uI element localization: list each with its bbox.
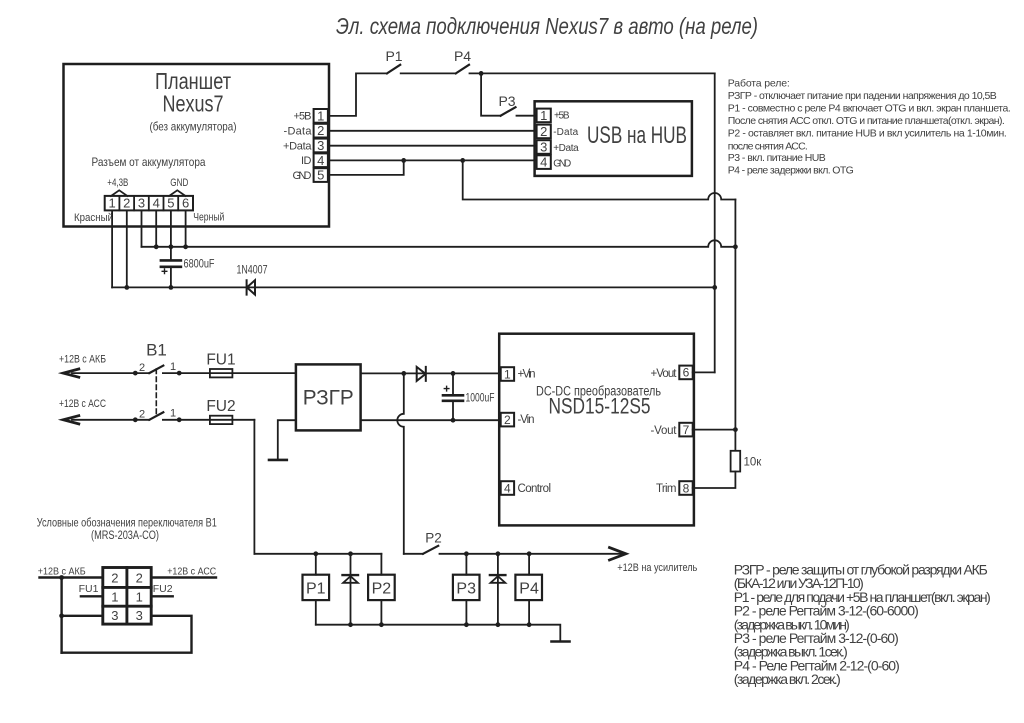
diode D1 1N4007 <box>247 280 255 294</box>
svg-text:3: 3 <box>136 608 143 623</box>
svg-text:2: 2 <box>139 409 145 421</box>
svg-text:2: 2 <box>540 124 547 139</box>
connector wire pin3 down <box>141 210 143 246</box>
svg-text:FU2: FU2 <box>153 583 173 595</box>
capacitor C1 branch upper <box>170 247 172 260</box>
node P2 bottom <box>379 622 384 627</box>
node pin5/gnd-line <box>169 244 174 249</box>
node ID/GND junction <box>401 158 406 163</box>
node D4 tap <box>496 551 501 556</box>
wire +5V rail <box>112 286 715 288</box>
svg-text:P3: P3 <box>498 93 515 109</box>
capacitor C1 polarity plus <box>162 269 167 274</box>
wire relay bottom rail <box>316 625 561 642</box>
svg-text:1: 1 <box>317 108 324 123</box>
diode D3 lead <box>350 554 352 625</box>
svg-text:4: 4 <box>540 155 547 170</box>
node P3 bottom <box>464 622 469 627</box>
svg-text:Работа реле:: Работа реле: <box>728 78 790 90</box>
svg-text:-Data: -Data <box>553 127 578 138</box>
wire RZGR minus to ground <box>278 420 296 460</box>
node P4 bottom <box>527 622 532 627</box>
arrow to AKB <box>63 369 79 377</box>
svg-text:2: 2 <box>504 413 511 427</box>
legend wire row3 right and loop <box>62 616 192 653</box>
USB HUB box <box>535 101 692 176</box>
caret marker over pins 5-6 <box>169 190 185 196</box>
capacitor C2 1000uF plates <box>443 395 463 401</box>
svg-text:GND: GND <box>293 170 312 182</box>
wire ID tablet to HUB GND <box>328 159 537 161</box>
arrow to ACC <box>63 416 79 424</box>
relay P2 coil box <box>368 575 395 600</box>
switch P3 blade <box>501 107 516 116</box>
relay P4 coil leads <box>528 554 530 625</box>
DC-DC pin squares <box>501 367 514 381</box>
svg-text:FU1: FU1 <box>79 583 99 595</box>
wire GND down and right to -Vout vertical <box>463 160 736 199</box>
svg-text:2: 2 <box>139 362 145 374</box>
svg-text:+12В на усилитель: +12В на усилитель <box>617 562 697 574</box>
node pin4/gnd-line <box>154 244 159 249</box>
svg-text:3: 3 <box>317 138 324 153</box>
svg-text:РЗГР: РЗГР <box>303 387 354 410</box>
svg-text:6800uF: 6800uF <box>184 259 215 271</box>
relay P1 coil box <box>303 575 330 600</box>
connector wire pin5 down <box>170 210 172 246</box>
svg-text:+4,3В: +4,3В <box>107 177 128 189</box>
switch B1 pole2 out node <box>177 417 182 422</box>
tablet pin labels <box>283 111 312 183</box>
node pin2/rail <box>124 285 129 290</box>
capacitor C2 polarity plus <box>444 386 449 391</box>
svg-text:Р1 - совместно с реле Р4 вкгюч: Р1 - совместно с реле Р4 вкгючает OTG и … <box>728 103 1011 115</box>
capacitor C2 branch lower <box>452 401 454 420</box>
svg-text:Р3 - вкл. питание HUB: Р3 - вкл. питание HUB <box>728 152 826 164</box>
wire P1 to P4 <box>401 72 456 74</box>
legend wire AKB <box>40 576 103 578</box>
legend wire FU1 <box>81 595 103 597</box>
svg-text:-Vout: -Vout <box>651 425 678 437</box>
svg-text:+12В с АСС: +12В с АСС <box>59 398 106 410</box>
svg-text:5: 5 <box>317 168 324 183</box>
legend wire ACC <box>151 576 216 578</box>
svg-text:Разъем от аккумулятора: Разъем от аккумулятора <box>92 155 206 169</box>
svg-text:P1: P1 <box>385 48 402 64</box>
connector wire pin2 down <box>126 210 128 287</box>
svg-text:1000uF: 1000uF <box>466 393 495 405</box>
svg-text:РЗГР - отключает питание при п: РЗГР - отключает питание при падении нап… <box>728 90 997 102</box>
svg-text:USB на HUB: USB на HUB <box>587 122 687 149</box>
node C1/rail <box>169 285 174 290</box>
relay P2 coil leads <box>380 554 382 625</box>
svg-text:1: 1 <box>111 589 118 604</box>
node D3 tap <box>348 551 353 556</box>
svg-text:Р4 - реле задержки вкл. OTG: Р4 - реле задержки вкл. OTG <box>728 165 854 177</box>
node junction P4/P3 <box>479 71 484 76</box>
battery connector X1 <box>105 196 193 211</box>
switch P1 blade <box>387 65 400 74</box>
wire FU2 down to bottom rail <box>253 420 255 554</box>
arrow to amplifier <box>610 548 626 560</box>
svg-text:Р2 - оставляет вкл. питание HU: Р2 - оставляет вкл. питание HUB и вкл ус… <box>728 128 1007 140</box>
ground G2 <box>552 640 570 643</box>
svg-text:B1: B1 <box>146 341 167 360</box>
switch P4 blade <box>456 65 469 74</box>
svg-text:(без аккумулятора): (без аккумулятора) <box>150 120 237 134</box>
node pin6/gnd-line <box>183 244 188 249</box>
svg-text:1: 1 <box>504 367 511 381</box>
wire resistor to Trim pin8 <box>693 472 736 489</box>
svg-text:2: 2 <box>317 123 324 138</box>
svg-text:-Vin: -Vin <box>518 414 535 426</box>
HUB pin numbers <box>540 108 547 170</box>
legend wire loop left vertical <box>60 578 62 653</box>
B1 mechanical link dashed <box>155 369 157 417</box>
relay P3 coil box <box>453 575 480 600</box>
relay P3 coil leads <box>465 554 467 625</box>
wire P4 to right vertical <box>470 72 715 74</box>
svg-text:6: 6 <box>182 196 189 211</box>
svg-text:После снятия АСС откл. OTG и п: После снятия АСС откл. OTG и питание пла… <box>728 115 1005 127</box>
svg-text:-Data: -Data <box>284 126 313 138</box>
DC-DC pin labels <box>518 368 678 495</box>
tablet pin squares 1-5 <box>314 109 328 123</box>
svg-text:(задержка вкл. 2сек.): (задержка вкл. 2сек.) <box>734 671 841 687</box>
capacitor C1 6800uF plates <box>161 260 181 266</box>
wire +5B from tablet pin1 <box>328 73 387 116</box>
svg-text:4: 4 <box>317 153 324 168</box>
legend node AKB tap <box>59 575 64 580</box>
svg-text:1: 1 <box>108 196 115 211</box>
resistor R1 10k <box>731 451 741 472</box>
svg-text:2: 2 <box>111 571 118 586</box>
switch B1 pole1 blade <box>149 366 163 374</box>
relay work notes text block <box>728 78 1011 177</box>
legend wire row3 left <box>62 615 103 617</box>
svg-text:5: 5 <box>167 196 174 211</box>
tablet pin numbers <box>317 108 324 182</box>
switch P2 blade <box>423 546 438 554</box>
node GND branch junction <box>460 158 465 163</box>
DC-DC pin numbers <box>504 366 690 496</box>
wire ACC to B1 <box>72 419 254 421</box>
svg-text:FU2: FU2 <box>206 398 235 415</box>
switch B1 pole2 pivot <box>133 417 138 422</box>
svg-text:1: 1 <box>170 361 176 373</box>
svg-text:P3: P3 <box>456 581 476 598</box>
svg-text:P1: P1 <box>306 581 326 598</box>
wire relay top rail left <box>254 553 423 555</box>
svg-text:+5В: +5В <box>294 111 312 123</box>
svg-text:Красный: Красный <box>74 212 113 224</box>
svg-text:NSD15-12S5: NSD15-12S5 <box>549 394 651 419</box>
capacitor C2 branch upper <box>452 373 454 395</box>
svg-text:Черный: Черный <box>193 212 224 224</box>
svg-text:Control: Control <box>518 483 552 495</box>
connector pin numbers 1-6 <box>108 196 189 211</box>
svg-text:1: 1 <box>136 589 143 604</box>
svg-text:+Data: +Data <box>553 143 579 154</box>
node C2 bottom <box>451 418 456 423</box>
svg-text:FU1: FU1 <box>206 352 235 369</box>
svg-text:+Data: +Data <box>283 140 312 152</box>
wire AKB to B1 <box>72 372 296 374</box>
svg-text:P4: P4 <box>519 581 539 598</box>
wire +Vout to vertical <box>693 371 715 373</box>
wire GND tablet pin5 up to ID line <box>328 160 404 175</box>
RZGR box <box>296 364 361 430</box>
switch B1 pole1 out node <box>177 371 182 376</box>
relay list text block <box>734 562 991 688</box>
connector wire pin1 down <box>111 210 113 287</box>
svg-text:Условные обозначения переключа: Условные обозначения переключателя В1 <box>37 518 217 530</box>
wire RZGR out to DC-DC +Vin <box>361 372 501 374</box>
node C2 top <box>451 371 456 376</box>
svg-text:Nexus7: Nexus7 <box>163 91 224 117</box>
svg-text:2: 2 <box>136 571 143 586</box>
legend cell numbers <box>111 571 143 624</box>
ground G1 <box>269 459 287 462</box>
relay P4 coil box <box>515 575 542 600</box>
svg-text:6: 6 <box>683 366 690 380</box>
svg-text:P2: P2 <box>425 531 442 546</box>
wire gnd vertical down to resistor <box>734 200 736 451</box>
diode D3 <box>343 576 358 583</box>
diode D4 lead <box>497 554 499 625</box>
connector wire pin6 down <box>185 210 187 246</box>
svg-text:после снятия АСС.: после снятия АСС. <box>728 140 808 152</box>
node D3 bottom <box>348 622 353 627</box>
node P1 coil tap <box>313 551 318 556</box>
svg-text:1N4007: 1N4007 <box>237 265 268 277</box>
wire gnd horizontal run to right with hop <box>142 240 736 246</box>
wire relay feed vertical with hop <box>397 373 404 553</box>
fuse FU1 <box>210 369 233 377</box>
caret marker over pins 1-2 <box>111 190 127 196</box>
node P3 coil tap <box>464 551 469 556</box>
wire down to P3 <box>481 73 501 115</box>
svg-text:Trim: Trim <box>656 483 677 495</box>
wire RZGR bottom to DC-DC -Vin <box>361 419 501 421</box>
capacitor C1 branch lower <box>170 267 172 287</box>
svg-text:GND: GND <box>170 177 188 189</box>
tablet box U-tablet <box>64 64 330 227</box>
wire -Data tablet to HUB <box>328 130 537 132</box>
fuse FU2 <box>210 416 233 424</box>
node D4 bottom <box>496 622 501 627</box>
svg-text:P2: P2 <box>372 581 392 598</box>
node gnd run joins -Vout vertical <box>733 244 738 249</box>
svg-text:+12В с АСС: +12В с АСС <box>167 566 216 578</box>
relay P1 coil leads <box>315 554 317 625</box>
wire -Vout to vertical <box>693 429 736 431</box>
wire relay top rail right to amplifier <box>440 553 625 555</box>
svg-text:GND: GND <box>553 158 571 169</box>
svg-text:P4: P4 <box>454 48 471 64</box>
wire +Vout vertical up to P4 line <box>714 73 716 372</box>
svg-text:(MRS-203A-CO): (MRS-203A-CO) <box>91 530 159 542</box>
svg-text:3: 3 <box>111 608 118 623</box>
DC-DC converter box <box>499 334 694 526</box>
svg-text:Эл. схема подключения Nexus7 в: Эл. схема подключения Nexus7 в авто (на … <box>336 13 758 39</box>
legend wire FU2 <box>151 595 173 597</box>
svg-text:1: 1 <box>540 108 547 123</box>
node rail joins +Vout vertical <box>712 285 717 290</box>
HUB pin squares 1-4 <box>537 109 551 123</box>
legend switch grid <box>103 568 151 625</box>
node branch to relay feed <box>401 371 406 376</box>
svg-text:+Vin: +Vin <box>518 369 536 381</box>
diode D4 <box>491 576 506 583</box>
svg-text:+12В с АКБ: +12В с АКБ <box>59 354 106 366</box>
wire +Data tablet to HUB <box>328 145 537 147</box>
HUB pin labels <box>553 111 579 170</box>
svg-text:3: 3 <box>138 196 145 211</box>
svg-text:2: 2 <box>123 196 130 211</box>
switch B1 pole1 pivot <box>133 371 138 376</box>
svg-text:3: 3 <box>540 140 547 155</box>
svg-text:+5В: +5В <box>554 111 570 122</box>
svg-text:10к: 10к <box>744 457 763 469</box>
svg-text:4: 4 <box>153 196 160 211</box>
connector wire pin4 down <box>155 210 157 246</box>
diode D2 <box>417 367 426 381</box>
svg-text:1: 1 <box>170 408 176 420</box>
svg-text:4: 4 <box>504 481 511 495</box>
svg-text:7: 7 <box>683 423 690 437</box>
svg-text:8: 8 <box>683 481 690 495</box>
svg-text:+Vout: +Vout <box>651 368 678 380</box>
node -Vout junction <box>733 427 738 432</box>
legend node row3 tap <box>59 613 64 618</box>
switch B1 pole2 blade <box>149 412 163 420</box>
node P4 coil tap <box>527 551 532 556</box>
wire P3 to HUB pin1 <box>517 115 537 117</box>
svg-text:ID: ID <box>301 155 312 167</box>
